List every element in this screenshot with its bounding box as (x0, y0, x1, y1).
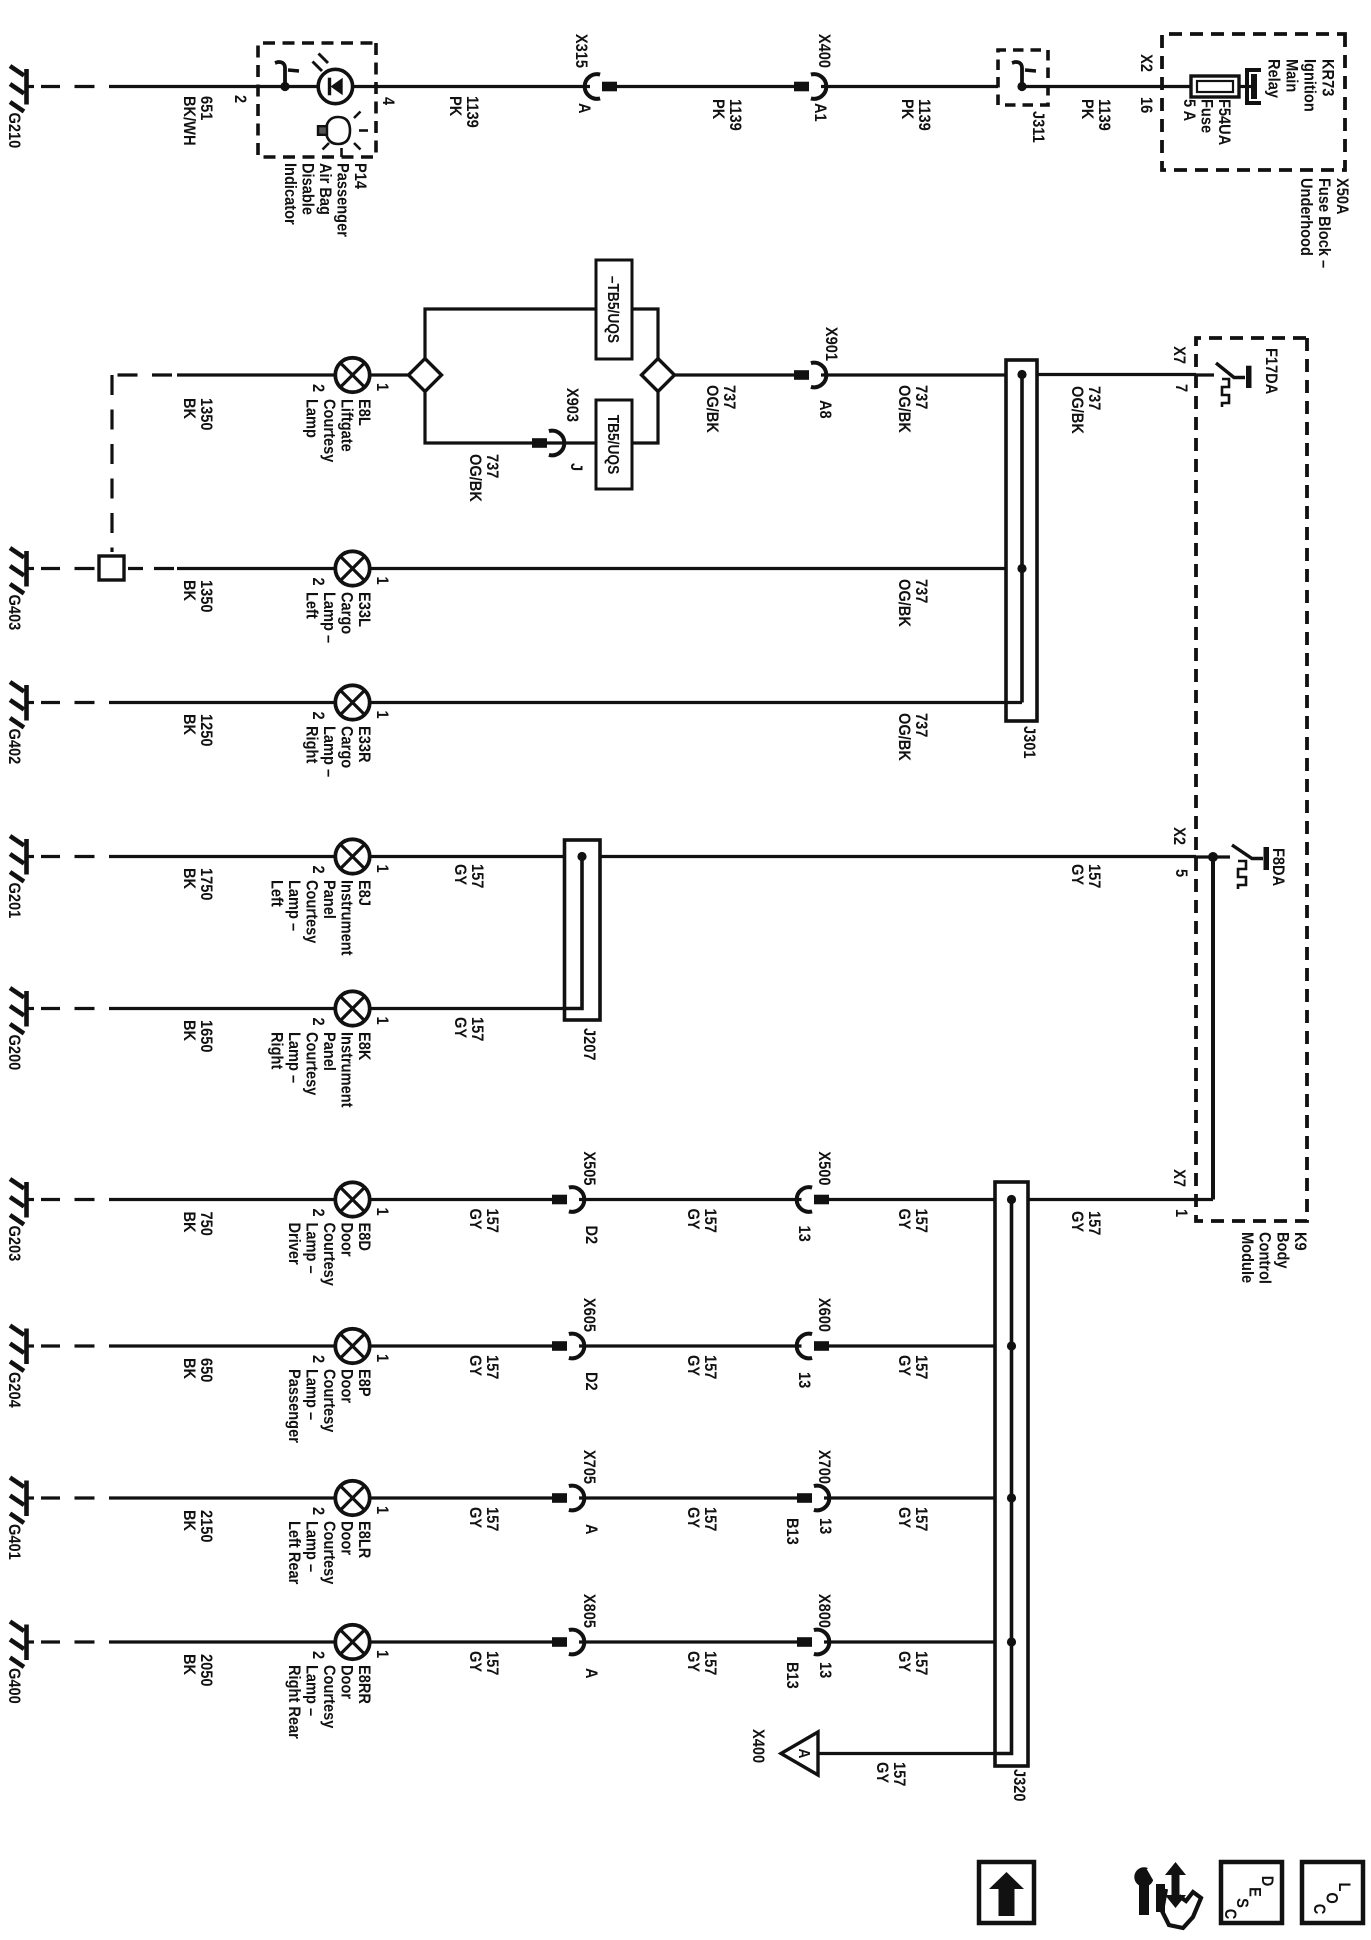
svg-text:13: 13 (795, 1372, 813, 1388)
svg-text:J301: J301 (1020, 726, 1038, 759)
svg-text:GY: GY (1068, 1211, 1086, 1233)
svg-text:O: O (1322, 1892, 1340, 1903)
ground G402 (5, 682, 34, 764)
wire fuse to relay (1239, 85, 1251, 88)
svg-text:157: 157 (701, 1651, 719, 1676)
E8P name label (285, 1369, 373, 1443)
svg-text:G200: G200 (5, 1035, 23, 1071)
svg-text:2: 2 (309, 1651, 327, 1659)
svg-text:Courtesy: Courtesy (302, 1032, 320, 1095)
svg-text:157: 157 (912, 1355, 930, 1380)
svg-text:Body: Body (1273, 1232, 1291, 1269)
J320 junction dots (1007, 1195, 1016, 1204)
LED indicator inside P14 (313, 54, 353, 104)
svg-text:J: J (567, 463, 585, 471)
E33R name label (302, 726, 373, 777)
svg-text:X600: X600 (815, 1298, 833, 1332)
wire 157 GY E8D to X505 (368, 1198, 552, 1201)
svg-text:GY: GY (895, 1355, 913, 1377)
wire 1750 BK dashed (41, 855, 95, 858)
svg-text:F8DA: F8DA (1269, 848, 1287, 887)
svg-text:737: 737 (912, 713, 930, 738)
svg-text:BK: BK (180, 868, 198, 890)
wire 650 BK (109, 1344, 337, 1347)
relay name label (1264, 59, 1336, 112)
wire label 157 GY (1068, 864, 1103, 889)
svg-text:Lamp –: Lamp – (302, 1665, 320, 1716)
svg-text:BK: BK (180, 1020, 198, 1042)
svg-text:OG/BK: OG/BK (895, 579, 913, 627)
wire 737 OG/BK diamond to X901 (675, 373, 800, 376)
wire 157 GY X600 to J320 (829, 1344, 995, 1347)
svg-text:Cargo: Cargo (337, 592, 355, 635)
svg-text:Driver: Driver (285, 1223, 303, 1265)
wire 157 GY E8K to J207 corner (368, 1007, 565, 1010)
svg-text:E33L: E33L (355, 592, 373, 627)
svg-text:Left Rear: Left Rear (285, 1521, 303, 1584)
svg-text:GY: GY (684, 1507, 702, 1529)
svg-text:Ignition: Ignition (1300, 59, 1318, 112)
svg-text:GY: GY (466, 1507, 484, 1529)
svg-text:750: 750 (197, 1212, 215, 1237)
wire label 1350 BK (180, 398, 215, 431)
svg-text:Control: Control (1255, 1232, 1273, 1284)
fuse block X50A (dashed box) (1162, 34, 1345, 170)
svg-text:Lamp: Lamp (302, 399, 320, 438)
svg-text:737: 737 (912, 579, 930, 604)
svg-text:E8K: E8K (355, 1032, 373, 1061)
svg-text:Lamp –: Lamp – (302, 1369, 320, 1420)
icon: wrench / connector tools (1134, 1862, 1201, 1928)
wire 157 GY J320 to X400 triangle (818, 1752, 995, 1755)
ground G201 (5, 836, 34, 918)
inline connector X600 (797, 1334, 829, 1359)
splice square (G403 shared) (99, 556, 124, 580)
svg-text:651: 651 (197, 96, 215, 121)
wire through P14 (258, 85, 376, 88)
left option loop (-TB5/UQS) (425, 309, 658, 359)
svg-text:BK: BK (180, 398, 198, 420)
wire label 157 GY (451, 864, 486, 889)
svg-text:737: 737 (483, 454, 501, 479)
svg-text:Instrument: Instrument (337, 880, 355, 956)
wire label 1250 BK (180, 714, 215, 747)
svg-text:J320: J320 (1010, 1769, 1028, 1802)
wire 1350 BK E8L dashed branch to splice (112, 375, 172, 552)
fuse name label (1180, 99, 1233, 146)
wire 1139 PK X400 to J311 (821, 85, 998, 88)
svg-text:OG/BK: OG/BK (895, 385, 913, 433)
wire 1750 BK (109, 855, 337, 858)
wire 2150 BK (109, 1496, 337, 1499)
svg-text:Lamp –: Lamp – (302, 1223, 320, 1274)
svg-text:C: C (1221, 1909, 1239, 1920)
svg-text:G403: G403 (5, 595, 23, 631)
E8K name label (267, 1032, 373, 1108)
svg-text:GY: GY (466, 1209, 484, 1231)
relay KR73 contact (1247, 68, 1261, 105)
svg-text:E8D: E8D (355, 1223, 373, 1251)
svg-text:X400: X400 (749, 1729, 767, 1763)
svg-text:GY: GY (466, 1651, 484, 1673)
svg-text:7: 7 (1172, 384, 1190, 392)
svg-text:Lamp –: Lamp – (285, 880, 303, 931)
wire 1139 PK P14 to X315 (376, 85, 590, 88)
svg-text:157: 157 (468, 1017, 486, 1042)
svg-text:GY: GY (684, 1651, 702, 1673)
svg-text:A: A (582, 1524, 600, 1535)
svg-text:157: 157 (701, 1355, 719, 1380)
svg-text:G401: G401 (5, 1524, 23, 1560)
ground G203 (5, 1179, 34, 1261)
svg-text:157: 157 (483, 1651, 501, 1676)
svg-text:Fuse Block –: Fuse Block – (1315, 178, 1333, 268)
svg-text:13: 13 (816, 1518, 834, 1534)
inline connector X605 (552, 1334, 584, 1359)
wire 750 BK dashed (41, 1198, 95, 1201)
wire 157 GY X700 to J320 (824, 1496, 995, 1499)
wire 2150 BK dashed (41, 1496, 95, 1499)
svg-text:157: 157 (912, 1209, 930, 1234)
wire label 157 GY (895, 1209, 930, 1234)
J311 tap symbol (1012, 62, 1036, 91)
svg-text:737: 737 (912, 385, 930, 410)
svg-text:Right Rear: Right Rear (285, 1665, 303, 1739)
svg-text:1: 1 (373, 1017, 391, 1025)
svg-text:BK: BK (180, 714, 198, 736)
svg-text:Left: Left (302, 592, 320, 619)
svg-text:K9: K9 (1291, 1232, 1309, 1251)
splice pack J301 (1006, 360, 1037, 721)
ground G400 (5, 1622, 34, 1704)
inline connector X700 (797, 1486, 829, 1511)
lamp E8RR (309, 1625, 391, 1659)
wire 157 GY X500 to J320 (829, 1198, 995, 1201)
svg-text:X7: X7 (1170, 346, 1188, 364)
wire label 157 GY (895, 1651, 930, 1676)
svg-text:KR73: KR73 (1318, 59, 1336, 97)
wire label 157 GY (466, 1209, 501, 1234)
svg-text:Door: Door (337, 1223, 355, 1257)
E8J name label (267, 880, 373, 956)
inline connector X500 (797, 1187, 829, 1212)
icon: LOC box (1302, 1862, 1363, 1923)
wire 157 GY J207 to BCM X2-5 (600, 855, 1196, 858)
svg-text:1: 1 (373, 1650, 391, 1658)
svg-text:157: 157 (468, 864, 486, 889)
svg-text:BK: BK (180, 1212, 198, 1234)
svg-text:157: 157 (912, 1651, 930, 1676)
wire label 737 OG/BK (1068, 386, 1103, 434)
splice pack J207 (565, 840, 601, 1020)
svg-text:Door: Door (337, 1369, 355, 1403)
svg-text:1350: 1350 (197, 580, 215, 613)
svg-text:Main: Main (1282, 59, 1300, 92)
svg-text:X805: X805 (580, 1594, 598, 1628)
wire 1350 BK (177, 567, 337, 570)
svg-text:X505: X505 (580, 1151, 598, 1185)
svg-text:–TB5/UQS: –TB5/UQS (604, 276, 622, 343)
wire label 1350 BK (180, 580, 215, 613)
svg-text:Liftgate: Liftgate (337, 399, 355, 452)
inline connector X505 (552, 1187, 584, 1212)
svg-text:157: 157 (701, 1507, 719, 1532)
wire 1350 BK (177, 373, 337, 376)
svg-text:Courtesy: Courtesy (320, 399, 338, 462)
svg-text:X315: X315 (572, 34, 590, 68)
svg-text:2: 2 (309, 712, 327, 720)
svg-text:Cargo: Cargo (337, 726, 355, 769)
svg-text:X800: X800 (815, 1594, 833, 1628)
svg-text:D2: D2 (582, 1226, 600, 1245)
BCM internal feed line (1211, 857, 1215, 1200)
wire lamp to splice diamond (368, 373, 409, 376)
svg-text:1: 1 (373, 577, 391, 585)
svg-text:13: 13 (795, 1226, 813, 1242)
wire 737 OG/BK E33R to J301 corner (368, 701, 1022, 704)
wire label 737 OG/BK (895, 713, 930, 761)
svg-text:Door: Door (337, 1665, 355, 1699)
lamp E8J (309, 839, 391, 873)
svg-text:OG/BK: OG/BK (1068, 386, 1086, 434)
svg-text:BK: BK (180, 1510, 198, 1532)
svg-text:1250: 1250 (197, 714, 215, 747)
wire label 737 OG/BK (895, 579, 930, 627)
svg-text:G400: G400 (5, 1668, 23, 1704)
svg-text:Instrument: Instrument (337, 1032, 355, 1108)
svg-text:Lamp –: Lamp – (285, 1032, 303, 1083)
svg-text:1139: 1139 (463, 96, 481, 128)
svg-text:G201: G201 (5, 883, 23, 919)
svg-text:X903: X903 (563, 388, 581, 422)
lamp E8LR (309, 1481, 391, 1515)
svg-text:2050: 2050 (197, 1654, 215, 1687)
svg-text:5 A: 5 A (1180, 99, 1198, 122)
svg-text:A: A (795, 1749, 813, 1759)
fuse block name label (1297, 178, 1351, 268)
ground G204 (5, 1326, 34, 1408)
svg-text:1750: 1750 (197, 868, 215, 901)
icon: DESC box (1221, 1862, 1282, 1923)
splice pack J320 (995, 1182, 1028, 1766)
svg-text:GY: GY (684, 1355, 702, 1377)
wire 157 GY E8LR to X705 (368, 1496, 552, 1499)
wire 737 OG/BK J301 to BCM X7-7 (1037, 373, 1196, 376)
svg-text:E: E (1245, 1887, 1263, 1897)
svg-text:X705: X705 (580, 1450, 598, 1484)
wire label 1139 PK (709, 99, 744, 131)
wire 157 GY J320 row7 to BCM X7-1 (1028, 1198, 1213, 1201)
svg-text:2: 2 (309, 1209, 327, 1217)
svg-text:13: 13 (816, 1662, 834, 1678)
wire 157 GY X805 to X800 (579, 1640, 802, 1643)
svg-text:L: L (1335, 1883, 1353, 1892)
svg-text:650: 650 (197, 1358, 215, 1383)
svg-text:X2: X2 (1137, 54, 1155, 72)
wire 157 GY E8P to X605 (368, 1344, 552, 1347)
lamp E33L (309, 551, 391, 585)
svg-text:1: 1 (373, 711, 391, 719)
inline connector X705 (552, 1486, 584, 1511)
svg-text:P14: P14 (351, 163, 369, 189)
svg-text:1139: 1139 (1095, 99, 1113, 131)
svg-text:F17DA: F17DA (1262, 348, 1280, 395)
inline connector X903 (532, 431, 564, 456)
svg-text:1: 1 (373, 383, 391, 391)
wire label 157 GY (895, 1507, 930, 1532)
inline connector X800 (797, 1630, 829, 1655)
indicator P14 Passenger Air Bag Disable Indicator (dashed box) (258, 43, 376, 157)
wire label 1650 BK (180, 1020, 215, 1053)
BCM driver F17DA (1196, 363, 1252, 407)
svg-text:BK/WH: BK/WH (180, 96, 198, 146)
svg-text:X2: X2 (1170, 827, 1188, 845)
svg-text:Lamp –: Lamp – (320, 726, 338, 777)
svg-text:Relay: Relay (1264, 59, 1282, 98)
svg-text:GY: GY (684, 1209, 702, 1231)
svg-text:GY: GY (451, 1017, 469, 1039)
E8RR name label (285, 1665, 373, 1739)
E8L name label (302, 399, 373, 462)
svg-text:D2: D2 (582, 1372, 600, 1391)
svg-text:PK: PK (1078, 99, 1096, 120)
wire label 650 BK (180, 1358, 215, 1383)
svg-text:E8J: E8J (355, 880, 373, 906)
wire 1650 BK (109, 1007, 337, 1010)
svg-text:X700: X700 (815, 1450, 833, 1484)
svg-text:GY: GY (873, 1762, 891, 1784)
svg-text:Right: Right (267, 1032, 285, 1070)
ground G401 (5, 1478, 34, 1560)
svg-text:1350: 1350 (197, 398, 215, 431)
wire label 2050 BK (180, 1654, 215, 1687)
svg-text:Module: Module (1238, 1232, 1256, 1283)
wire label 1750 BK (180, 868, 215, 901)
svg-text:X500: X500 (815, 1151, 833, 1185)
wire label 1139 PK (1078, 99, 1113, 131)
svg-text:A1: A1 (811, 103, 829, 122)
svg-text:J207: J207 (580, 1028, 598, 1061)
svg-text:Courtesy: Courtesy (320, 1521, 338, 1584)
svg-text:J311: J311 (1029, 111, 1047, 143)
wire 157 GY E8RR to X805 (368, 1640, 552, 1643)
wire label 157 GY (466, 1507, 501, 1532)
E8D name label (285, 1223, 373, 1286)
svg-text:Passenger: Passenger (285, 1369, 303, 1443)
wire 1139 PK X315 to X400 (617, 85, 799, 88)
tag box TB5/UQS (596, 400, 632, 489)
inline connector X315 (585, 74, 617, 99)
svg-text:Courtesy: Courtesy (320, 1223, 338, 1286)
module K9 Body Control Module (dashed box) (1196, 338, 1307, 1221)
svg-text:GY: GY (895, 1507, 913, 1529)
svg-text:G204: G204 (5, 1372, 23, 1408)
svg-text:157: 157 (701, 1209, 719, 1234)
wire 1650 BK dashed (41, 1007, 95, 1010)
wire label 737 OG/BK (895, 385, 930, 433)
svg-text:X7: X7 (1170, 1169, 1188, 1187)
inline connector X400 (794, 74, 826, 99)
wire 651 BK/WH dashed from G210 (41, 85, 95, 88)
svg-text:F54UA: F54UA (1215, 99, 1233, 146)
svg-text:2: 2 (309, 1355, 327, 1363)
wire 1350 BK dashed (G403 to splice square) (41, 567, 95, 570)
svg-text:TB5/UQS: TB5/UQS (604, 415, 622, 475)
J301 junction dots (1017, 370, 1026, 379)
svg-text:1: 1 (1172, 1209, 1190, 1217)
svg-text:BK: BK (180, 1654, 198, 1676)
svg-text:Courtesy: Courtesy (302, 880, 320, 943)
wire label 157 GY (684, 1507, 719, 1532)
svg-text:BK: BK (180, 580, 198, 602)
svg-text:Door: Door (337, 1521, 355, 1555)
svg-text:GY: GY (466, 1355, 484, 1377)
svg-text:GY: GY (895, 1651, 913, 1673)
svg-text:A: A (575, 103, 593, 114)
svg-text:157: 157 (890, 1762, 908, 1787)
svg-text:157: 157 (912, 1507, 930, 1532)
wire 1250 BK dashed (41, 701, 95, 704)
svg-text:B13: B13 (783, 1518, 801, 1545)
wire 651 BK/WH (109, 85, 258, 88)
svg-text:Left: Left (267, 880, 285, 907)
svg-text:Courtesy: Courtesy (320, 1665, 338, 1728)
wire label 157 GY (873, 1762, 908, 1787)
svg-text:2150: 2150 (197, 1510, 215, 1543)
splice diamond 1 (409, 359, 442, 392)
svg-text:Lamp –: Lamp – (320, 592, 338, 643)
wire label 651 BK/WH (180, 96, 215, 146)
wire label 737 OG/BK (branch) (466, 454, 501, 502)
K9 name label (1238, 1232, 1309, 1284)
svg-text:2: 2 (309, 866, 327, 874)
svg-text:Panel: Panel (320, 1032, 338, 1071)
svg-text:1139: 1139 (726, 99, 744, 131)
wire label 1139 PK (898, 99, 933, 131)
svg-text:A8: A8 (816, 400, 834, 419)
svg-text:PK: PK (709, 99, 727, 120)
splice diamond 2 (642, 359, 675, 392)
junction J311 (dashed box) (998, 50, 1048, 105)
svg-text:D: D (1258, 1876, 1276, 1887)
svg-text:C: C (1310, 1904, 1328, 1915)
E33L name label (302, 592, 373, 643)
wire 157 GY E8J to J207 (368, 855, 565, 858)
wire label 157 GY (466, 1355, 501, 1380)
svg-text:Right: Right (302, 726, 320, 764)
fuse F54UA 5A (1191, 76, 1239, 97)
svg-text:X605: X605 (580, 1298, 598, 1332)
svg-text:157: 157 (483, 1507, 501, 1532)
E8LR name label (285, 1521, 373, 1584)
svg-text:1: 1 (373, 1354, 391, 1362)
svg-text:2: 2 (309, 578, 327, 586)
svg-text:GY: GY (451, 864, 469, 886)
svg-text:E8L: E8L (355, 399, 373, 426)
wire label 157 GY (895, 1355, 930, 1380)
wire 157 GY X705 to X700 (579, 1496, 802, 1499)
svg-text:Fuse: Fuse (1197, 99, 1215, 133)
svg-text:Disable: Disable (298, 163, 316, 215)
svg-text:737: 737 (720, 385, 738, 410)
svg-text:OG/BK: OG/BK (703, 385, 721, 433)
wire label 157 GY (684, 1355, 719, 1380)
wire label 157 GY (1068, 1211, 1103, 1236)
svg-text:A: A (582, 1668, 600, 1679)
svg-text:S: S (1233, 1898, 1251, 1908)
wire 750 BK (109, 1198, 337, 1201)
wire 2050 BK dashed (41, 1640, 95, 1643)
